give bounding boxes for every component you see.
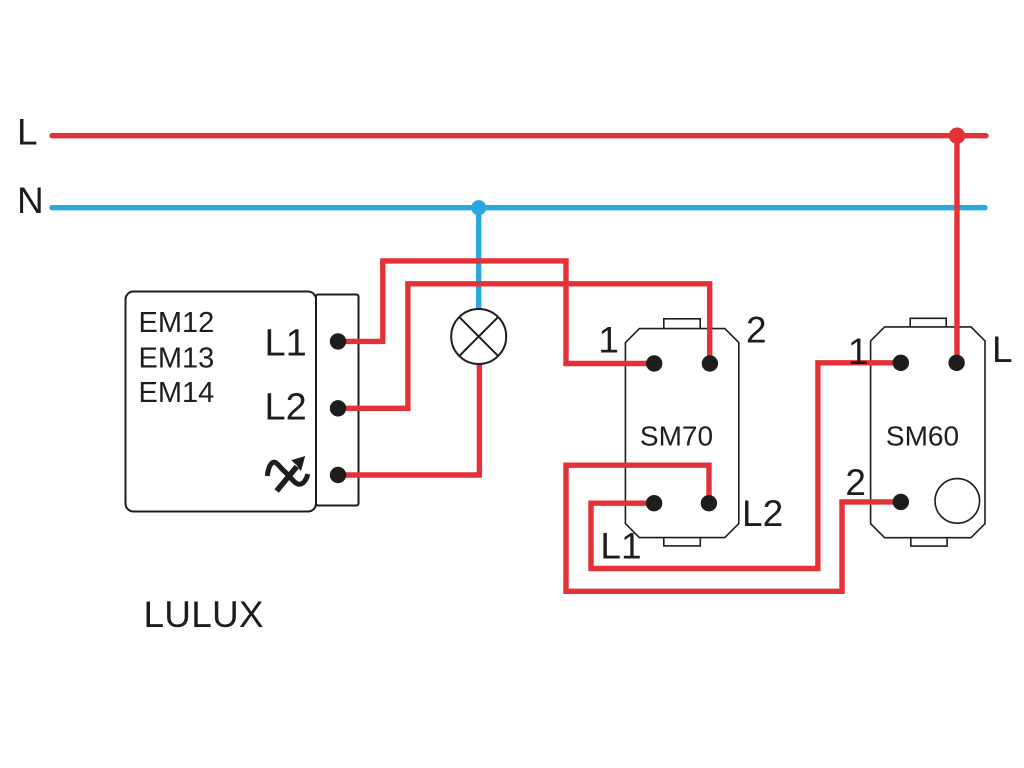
module EM12/EM13/EM14 body xyxy=(126,292,317,512)
node N junction xyxy=(471,200,486,215)
wire N drop to lamp xyxy=(476,208,481,309)
symbol crossed-arrow (EM third terminal) xyxy=(267,456,308,491)
terminal dot SM70 L1 xyxy=(646,495,662,511)
svg-text:1: 1 xyxy=(848,331,869,372)
terminal dot SM70 2 xyxy=(702,355,718,371)
svg-text:EM14: EM14 xyxy=(139,377,215,409)
switch SM70 bottom tab xyxy=(664,537,701,546)
node L junction xyxy=(949,128,965,144)
switch SM60 body xyxy=(871,327,985,538)
svg-text:L: L xyxy=(17,112,38,153)
module EM terminal strip xyxy=(316,295,359,506)
svg-text:EM13: EM13 xyxy=(139,343,215,375)
svg-text:1: 1 xyxy=(598,320,619,361)
switch SM60 top tab xyxy=(910,318,946,328)
svg-text:L1: L1 xyxy=(265,323,307,365)
svg-text:2: 2 xyxy=(845,462,866,503)
terminal dot SM60 L xyxy=(948,355,964,371)
terminal dot SM70 1 xyxy=(646,355,662,371)
terminal dot SM60 1 xyxy=(893,355,909,371)
terminal dot EM L1 xyxy=(330,333,346,349)
wire EM L1 to SM70 terminal 1 xyxy=(338,261,654,364)
wire SM70 L2 to SM60 terminal 2 xyxy=(566,465,901,591)
svg-text:N: N xyxy=(17,180,44,221)
wire SM70 L1 to SM60 terminal 1 xyxy=(591,363,901,569)
svg-text:L2: L2 xyxy=(265,387,307,429)
switch SM60 bottom tab xyxy=(911,537,947,546)
svg-text:L2: L2 xyxy=(742,493,783,534)
svg-text:EM12: EM12 xyxy=(139,307,215,339)
terminal dot EM third xyxy=(330,467,346,483)
svg-text:LULUX: LULUX xyxy=(144,594,264,635)
svg-text:L1: L1 xyxy=(600,525,641,566)
terminal dot EM L2 xyxy=(330,400,346,416)
svg-text:2: 2 xyxy=(746,310,767,351)
svg-text:SM60: SM60 xyxy=(886,421,959,452)
svg-text:L: L xyxy=(992,329,1013,370)
switch SM70 top tab xyxy=(664,319,700,330)
wire EM third terminal to lamp xyxy=(338,364,479,475)
terminal dot SM70 L2 xyxy=(701,495,717,511)
lamp xyxy=(451,309,506,364)
terminal dot SM60 2 xyxy=(893,494,909,510)
wire L bus (phase line) xyxy=(52,133,986,138)
svg-text:SM70: SM70 xyxy=(640,421,713,452)
wire EM L2 to SM70 terminal 2 xyxy=(338,284,710,409)
wire L to SM60 terminal L xyxy=(954,136,959,363)
wire N bus (neutral line) xyxy=(52,205,985,210)
dimmer knob SM60 xyxy=(935,479,980,524)
switch SM70 body xyxy=(625,329,738,538)
